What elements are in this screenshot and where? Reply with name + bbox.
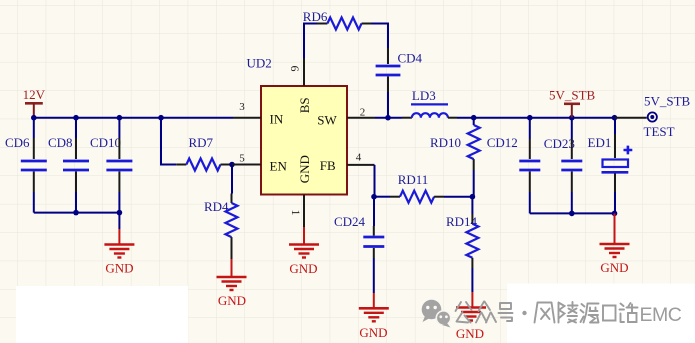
capacitor CD24 (334, 197, 384, 293)
pin 3 IN (233, 117, 261, 119)
svg-text:CD4: CD4 (398, 51, 423, 66)
hanzi kou (603, 306, 616, 321)
inductor LD3 (402, 88, 457, 118)
node junction ED1 bottom (612, 211, 618, 217)
ground GND ED1 (600, 213, 630, 275)
svg-text:FB: FB (320, 158, 336, 173)
svg-text:GND: GND (297, 155, 312, 183)
node junction ED1 (612, 115, 618, 121)
wire EN branch vertical (161, 118, 176, 165)
node junction CD23 bottom (569, 211, 575, 217)
svg-text:GND: GND (105, 261, 133, 276)
svg-text:4: 4 (356, 152, 362, 164)
pin 5 EN (232, 164, 261, 166)
node junction CD12 (527, 115, 533, 121)
node junction EN/RD4 (229, 162, 235, 168)
node junction 5V_STB/CD23 (569, 115, 575, 121)
ground GND IC (289, 227, 319, 276)
svg-text:CD6: CD6 (5, 135, 30, 150)
capacitor CD4 (376, 48, 423, 118)
node junction 12V/CD6 (31, 115, 37, 121)
svg-text:5: 5 (239, 153, 245, 165)
pin 2 SW (347, 117, 375, 119)
resistor RD11 (374, 172, 472, 203)
svg-text:GND: GND (456, 326, 484, 341)
svg-text:GND: GND (600, 260, 628, 275)
wire SW to LD3 (375, 117, 402, 119)
ground GND RD4 (217, 259, 247, 308)
ground GND CD24 (359, 293, 389, 340)
svg-text:UD2: UD2 (247, 55, 272, 70)
ground GND RD14 (456, 292, 486, 341)
wire FB branch (374, 165, 376, 197)
capacitor CD6 (5, 118, 47, 213)
wire main input rail (34, 117, 233, 119)
pin 4 FB (347, 164, 375, 166)
wire to ground (118, 213, 120, 229)
capacitor CD12 (487, 118, 541, 214)
wire RD6 to CD4 (372, 24, 389, 49)
svg-text:RD6: RD6 (303, 9, 328, 24)
capacitor CD23 (544, 118, 583, 214)
hanzi du (581, 304, 599, 323)
wire BS to RD6 (304, 24, 317, 59)
svg-text:CD8: CD8 (48, 135, 73, 150)
svg-text:BS: BS (297, 97, 312, 113)
wire to test point (615, 117, 647, 119)
svg-text:1: 1 (289, 210, 303, 216)
svg-text:2: 2 (360, 107, 366, 119)
svg-text:GND: GND (218, 293, 246, 308)
svg-text:IN: IN (270, 112, 284, 127)
svg-text:GND: GND (289, 261, 317, 276)
resistor RD4 (204, 165, 238, 260)
capacitor CD10 (90, 118, 132, 213)
svg-text:GND: GND (359, 325, 387, 340)
white patch bottom-left (16, 286, 188, 343)
watermark text (456, 302, 638, 323)
svg-text:CD12: CD12 (487, 135, 518, 150)
node junction SW/CD4 (385, 115, 391, 121)
node junction FB/CD24/RD11 (371, 194, 377, 200)
wire output bottom bus (530, 212, 615, 214)
resistor RD10 (430, 118, 480, 197)
hanzi hua (620, 303, 638, 322)
capacitor ED1 polarized (588, 118, 633, 214)
node junction EN branch (158, 115, 164, 121)
node junction CD8 (73, 115, 79, 121)
svg-text:CD10: CD10 (90, 135, 121, 150)
hanzi ling (559, 302, 578, 323)
capacitor CD8 (48, 118, 89, 213)
op-amp U1 : IC UD2 body (247, 55, 348, 194)
svg-text:EMC: EMC (640, 304, 682, 326)
svg-text:CD23: CD23 (544, 136, 575, 151)
watermark logo (422, 300, 451, 328)
power port 12V (23, 87, 46, 118)
svg-text:SW: SW (317, 113, 337, 128)
svg-text:3: 3 (239, 101, 245, 113)
resistor RD7 (176, 135, 232, 171)
node junction CD8 bottom (73, 210, 79, 216)
svg-text:EN: EN (270, 159, 288, 174)
pin 6 BS (303, 58, 305, 86)
resistor RD14 (446, 197, 478, 292)
ground GND left (104, 229, 134, 276)
svg-text:RD7: RD7 (189, 135, 214, 150)
wire LD3 to output rail (457, 117, 615, 119)
node junction RD10/RD11/RD14 (470, 194, 476, 200)
svg-text:6: 6 (288, 66, 302, 72)
resistor RD6 (303, 9, 372, 30)
svg-text:5V_STB: 5V_STB (549, 87, 596, 102)
svg-text:12V: 12V (23, 87, 46, 102)
svg-text:RD11: RD11 (398, 172, 429, 187)
node junction CD10 bottom (117, 210, 123, 216)
power port 5V_STB (549, 87, 596, 117)
pin 1 GND (303, 195, 305, 228)
svg-text:CD24: CD24 (334, 214, 366, 229)
svg-text:RD10: RD10 (430, 135, 461, 150)
svg-text:LD3: LD3 (412, 88, 436, 103)
hanzi zhong (476, 302, 496, 323)
test point TEST 5V_STB (644, 94, 691, 139)
svg-text:5V_STB: 5V_STB (644, 94, 691, 109)
hanzi hao (499, 303, 513, 321)
middle dot (522, 311, 526, 315)
hanzi gong (456, 302, 472, 323)
svg-text:TEST: TEST (644, 124, 675, 139)
hanzi feng (535, 303, 555, 323)
white patch bottom-right (507, 284, 695, 343)
svg-text:ED1: ED1 (588, 135, 612, 150)
node junction RD10 (471, 115, 477, 121)
node junction CD10 (117, 115, 123, 121)
wire capacitor bottom bus (34, 212, 120, 214)
